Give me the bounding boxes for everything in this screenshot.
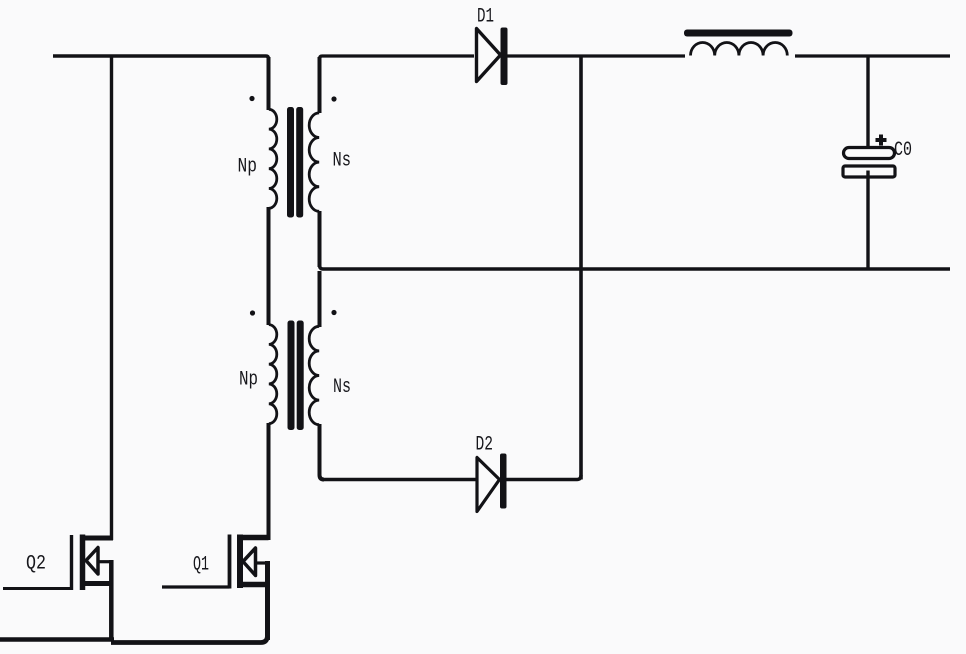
transformer T1 secondary top stub (318, 57, 322, 113)
wire bottom source rail to Q1 (111, 620, 268, 643)
wire T2 secondary to D2 anode (322, 478, 477, 481)
svg-text:C0: C0 (894, 139, 912, 162)
inductor output choke core bar (684, 30, 793, 37)
wire secondary top rail to D1 anode (320, 56, 475, 59)
wire T2 primary bottom to Q1 drain (267, 423, 271, 540)
node T1 primary phase dot (249, 96, 254, 101)
transformer T2 core (288, 321, 304, 431)
transformer T2 secondary winding Ns (309, 326, 319, 424)
wire D1 cathode to inductor (507, 54, 685, 57)
svg-text:D1: D1 (477, 6, 494, 29)
svg-text:Np: Np (238, 156, 258, 179)
inductor output choke winding (691, 42, 788, 55)
transformer T2 primary winding Np (269, 325, 277, 424)
wire T1 primary bottom to T2 primary top (267, 207, 271, 325)
wire C0 bottom lead (866, 171, 869, 270)
transformer T1 primary top stub (267, 57, 271, 110)
transformer T1 secondary bottom stub (318, 211, 322, 267)
node T1 secondary phase dot (331, 96, 336, 101)
transistor Q2 (3, 535, 113, 642)
node T2 primary phase dot (250, 310, 255, 315)
svg-text:Ns: Ns (333, 150, 352, 173)
transformer T1 secondary winding Ns (309, 113, 319, 211)
wire top-left input rail (53, 56, 269, 59)
capacitor C0 plus sign (876, 135, 887, 146)
wire left vertical (input to Q2 drain) (110, 56, 113, 540)
wire junction vertical (D1/D2 cathodes) (579, 56, 583, 480)
svg-text:Q2: Q2 (26, 553, 46, 576)
node T2 secondary phase dot (331, 310, 336, 315)
capacitor C0 bottom plate (843, 166, 895, 177)
svg-text:Q1: Q1 (193, 554, 209, 577)
svg-text:D2: D2 (476, 434, 494, 457)
diode D1 (477, 28, 508, 86)
transformer T1 core (287, 107, 303, 218)
wire C0 top lead (866, 56, 869, 148)
transistor Q1 (162, 535, 269, 641)
svg-text:Np: Np (239, 368, 258, 391)
transformer T2 secondary top stub (318, 271, 322, 327)
wire inductor to output (795, 54, 950, 57)
svg-text:Ns: Ns (333, 376, 351, 399)
wire bottom-left source rail (0, 637, 114, 642)
wire D2 cathode to junction vertical (506, 475, 581, 480)
capacitor C0 top plate (844, 148, 895, 159)
diode D2 (477, 454, 507, 512)
transformer T2 secondary bottom stub (320, 424, 325, 480)
transformer T1 primary winding Np (269, 109, 277, 208)
wire middle output return rail (320, 265, 951, 269)
